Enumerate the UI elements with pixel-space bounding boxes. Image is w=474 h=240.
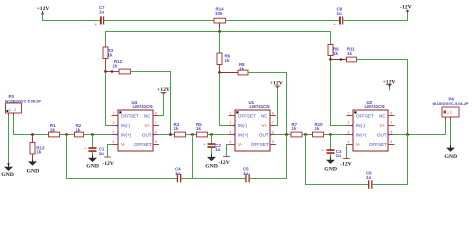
- resistor R1 1k: [49, 123, 60, 137]
- svg-text:5: 5: [155, 140, 157, 144]
- wire +12V to NC/V+ U1: [276, 87, 278, 126]
- wire R8 feedback to U1 output: [248, 73, 287, 135]
- wire C4 to node B riser: [181, 178, 192, 180]
- node C1 junction: [91, 133, 94, 136]
- capacitor C8: [334, 7, 344, 28]
- node rail-R3: [105, 32, 107, 48]
- svg-text:1k: 1k: [292, 126, 297, 131]
- resistor R4 1k: [174, 122, 186, 137]
- svg-text:GND: GND: [1, 172, 14, 178]
- wire C8 to -12V: [343, 20, 407, 22]
- power flag +12V stage2: [270, 80, 284, 88]
- resistor R9 1k: [328, 45, 339, 60]
- svg-text:5: 5: [391, 140, 393, 144]
- capacitor C6: [366, 171, 373, 189]
- wire R12 feedback to U4 output: [131, 72, 171, 135]
- svg-text:IN(+): IN(+): [121, 133, 132, 138]
- svg-text:1k: 1k: [333, 51, 338, 56]
- node rail-R9: [330, 32, 332, 45]
- svg-text:7: 7: [155, 121, 157, 125]
- wire R7-R10: [302, 134, 313, 136]
- svg-text:1k: 1k: [347, 51, 352, 56]
- node A junction: [65, 133, 68, 136]
- svg-text:OFFSET: OFFSET: [238, 114, 256, 119]
- wire R2 to IN(+) U4: [84, 134, 113, 136]
- svg-text:1: 1: [348, 112, 350, 116]
- node rail-R6 junction: [218, 30, 221, 33]
- svg-text:2: 2: [348, 121, 350, 125]
- resistor R8 1k: [220, 62, 249, 75]
- svg-text:-12V: -12V: [340, 161, 353, 167]
- mid rail wire: [106, 31, 331, 33]
- wire junction to IN(-) U4: [106, 72, 113, 126]
- svg-text:+: +: [95, 22, 98, 27]
- svg-text:6: 6: [272, 131, 274, 135]
- svg-text:1u: 1u: [366, 175, 371, 180]
- svg-text:WJ2EDGVC-5.08-2P: WJ2EDGVC-5.08-2P: [433, 102, 469, 106]
- svg-text:V-: V-: [356, 142, 361, 147]
- svg-text:8: 8: [391, 112, 393, 116]
- svg-text:GND: GND: [205, 163, 218, 169]
- op-amp U4 LM741CN: [112, 100, 159, 151]
- svg-text:100: 100: [215, 11, 223, 16]
- ground P3: [1, 163, 14, 179]
- resistor R2 1k: [75, 123, 84, 137]
- svg-text:1k: 1k: [174, 126, 179, 131]
- wire C5 to R8 drop riser: [250, 178, 287, 180]
- svg-text:LM741CN: LM741CN: [250, 104, 270, 109]
- power flag +12V stage3: [383, 80, 397, 91]
- wire junction to IN(-) U2: [331, 60, 348, 126]
- resistor R13 1k: [30, 135, 45, 161]
- svg-text:V+: V+: [380, 123, 386, 128]
- svg-text:4: 4: [230, 140, 232, 144]
- svg-text:GND: GND: [27, 168, 40, 174]
- capacitor C2: [203, 135, 221, 155]
- node R8 drop junction: [285, 133, 288, 136]
- svg-text:-12V: -12V: [102, 161, 115, 167]
- wire R10 to IN(+) U2: [324, 134, 348, 136]
- connector P4 WJ2EDGVC-5.08-2P: [433, 97, 469, 121]
- node stage1 inverting junction: [104, 70, 107, 73]
- wire U1 output: [276, 134, 292, 136]
- svg-text:OFFSET: OFFSET: [251, 142, 269, 147]
- wire bottom loop stage2: [193, 178, 246, 180]
- connector P3 WJ2EDGVC-5.08-2P: [5, 94, 41, 116]
- wire P4 pin1 to output: [445, 120, 447, 135]
- svg-text:OFFSET: OFFSET: [369, 142, 387, 147]
- svg-text:GND: GND: [445, 154, 458, 160]
- wire P3 pin2 to input rail: [14, 116, 49, 135]
- wire from +12V to C7: [42, 14, 44, 21]
- svg-text:OUT: OUT: [142, 133, 152, 138]
- svg-text:1: 1: [9, 108, 11, 112]
- ground C1: [86, 156, 99, 170]
- wire junction to IN(-) U1: [220, 73, 230, 126]
- resistor R6 1k: [217, 53, 231, 73]
- svg-text:OFFSET: OFFSET: [121, 114, 139, 119]
- svg-text:IN(+): IN(+): [238, 133, 249, 138]
- svg-text:IN(-): IN(-): [356, 123, 365, 128]
- wire P4 pin2 to GND: [450, 120, 452, 148]
- wire bottom loop stage3: [306, 184, 369, 186]
- node C junction: [304, 133, 307, 136]
- node C3 junction: [329, 133, 332, 136]
- node stage2 inverting junction: [218, 71, 221, 74]
- svg-text:6: 6: [391, 131, 393, 135]
- svg-text:NC: NC: [379, 114, 386, 119]
- svg-text:V-: V-: [238, 142, 243, 147]
- svg-text:LM741CN: LM741CN: [133, 104, 153, 109]
- resistor R12 1k: [106, 59, 131, 74]
- svg-text:5: 5: [272, 140, 274, 144]
- svg-text:V-: V-: [121, 142, 126, 147]
- capacitor C1: [84, 135, 105, 157]
- svg-text:OUT: OUT: [377, 133, 387, 138]
- svg-text:3: 3: [348, 131, 350, 135]
- svg-text:2: 2: [14, 108, 16, 112]
- wire R14 wiper to mid rail: [219, 28, 221, 32]
- svg-text:GND: GND: [324, 166, 337, 172]
- capacitor C5: [243, 167, 250, 183]
- svg-text:3: 3: [113, 131, 115, 135]
- svg-text:IN(-): IN(-): [121, 123, 130, 128]
- svg-text:8: 8: [272, 112, 274, 116]
- node B junction: [191, 133, 194, 136]
- svg-text:+12V: +12V: [37, 6, 51, 12]
- power flag -12V stage1: [102, 145, 115, 168]
- svg-text:P4: P4: [449, 97, 455, 102]
- resistor R5 1k: [196, 122, 208, 137]
- ground C3: [324, 158, 337, 173]
- svg-text:1k: 1k: [113, 64, 118, 69]
- svg-text:GND: GND: [86, 163, 99, 169]
- power flag +12V stage1: [157, 87, 171, 94]
- resistor R7 1k: [291, 122, 302, 137]
- resistor R10 1k: [313, 122, 324, 137]
- svg-text:1k: 1k: [225, 58, 230, 63]
- svg-text:7: 7: [272, 121, 274, 125]
- svg-text:2: 2: [113, 121, 115, 125]
- wire C7 to R14: [104, 20, 214, 22]
- wire R5 to IN(+) U1: [208, 134, 230, 136]
- power flag -12V stage2: [218, 145, 231, 166]
- op-amp U2 LM741CN: [347, 100, 394, 151]
- node D junction: [406, 133, 409, 136]
- svg-text:1u: 1u: [215, 147, 220, 152]
- svg-text:1u: 1u: [336, 153, 341, 158]
- wire R4-R5: [186, 134, 197, 136]
- svg-text:+: +: [334, 22, 337, 27]
- node R12 drop junction: [169, 133, 172, 136]
- wire node A loop riser: [66, 135, 68, 179]
- node C2 junction: [210, 133, 213, 136]
- svg-text:1u: 1u: [337, 11, 342, 16]
- potentiometer R14 100: [214, 7, 226, 29]
- svg-text:OFFSET: OFFSET: [134, 142, 152, 147]
- ground C2: [205, 155, 218, 170]
- svg-text:4: 4: [113, 140, 115, 144]
- wire node C loop riser: [305, 135, 307, 185]
- wire R11 feedback to U2 output: [357, 60, 408, 135]
- wire node D loop riser: [407, 135, 409, 185]
- resistor R11 1k: [331, 47, 357, 62]
- node stage3 inverting junction: [329, 58, 332, 61]
- svg-text:V+: V+: [262, 123, 268, 128]
- ground R13: [27, 160, 40, 174]
- svg-text:IN(-): IN(-): [238, 123, 247, 128]
- capacitor C3: [322, 135, 342, 158]
- op-amp U1 LM741CN: [229, 100, 276, 151]
- svg-text:+12V: +12V: [270, 80, 284, 86]
- wire R1-R2: [60, 134, 75, 136]
- wire R8 drop loop riser: [286, 135, 288, 179]
- wire +12V to NC/V+ U4: [159, 94, 164, 116]
- svg-text:OFFSET: OFFSET: [356, 114, 374, 119]
- svg-text:P3: P3: [9, 94, 15, 99]
- capacitor C4: [175, 167, 181, 183]
- wire node B loop riser: [192, 135, 194, 179]
- svg-text:NC: NC: [261, 114, 268, 119]
- wire U2 output to P4: [394, 134, 446, 136]
- svg-text:1u: 1u: [99, 151, 104, 156]
- ground P4: [445, 145, 458, 160]
- svg-text:1: 1: [230, 112, 232, 116]
- svg-text:IN(+): IN(+): [356, 133, 367, 138]
- svg-text:NC: NC: [144, 114, 151, 119]
- svg-text:7: 7: [391, 121, 393, 125]
- svg-text:-12V: -12V: [400, 5, 413, 11]
- svg-text:1u: 1u: [99, 10, 104, 15]
- power flag +12V top-left: [37, 6, 51, 15]
- svg-text:1: 1: [113, 112, 115, 116]
- power flag -12V top-right: [400, 5, 413, 13]
- capacitor C7: [95, 5, 106, 27]
- svg-text:1 2: 1 2: [447, 111, 452, 115]
- wire P3 pin1 to GND: [8, 116, 10, 165]
- node R13 junction: [31, 133, 34, 136]
- wire R14 to C8: [226, 20, 340, 22]
- svg-text:3: 3: [230, 131, 232, 135]
- svg-text:2: 2: [230, 121, 232, 125]
- wire C6 to node D riser: [373, 184, 408, 186]
- svg-text:4: 4: [348, 140, 350, 144]
- svg-text:6: 6: [155, 131, 157, 135]
- svg-text:-12V: -12V: [218, 160, 231, 166]
- svg-text:V+: V+: [145, 123, 151, 128]
- wire bottom loop stage1: [67, 178, 178, 180]
- power flag -12V stage3: [340, 145, 353, 168]
- svg-text:OUT: OUT: [259, 133, 269, 138]
- svg-text:1k: 1k: [196, 126, 201, 131]
- wire U4 output: [159, 134, 175, 136]
- svg-text:LM741CN: LM741CN: [365, 104, 385, 109]
- svg-text:1k: 1k: [36, 149, 41, 154]
- svg-text:1k: 1k: [315, 126, 320, 131]
- resistor R3 1k: [103, 47, 114, 72]
- svg-text:8: 8: [155, 112, 157, 116]
